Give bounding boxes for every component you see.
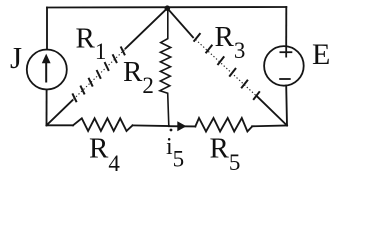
wire middle node to R5 xyxy=(169,125,195,127)
wire top rail xyxy=(47,6,286,9)
resistor R1 zigzag body xyxy=(73,47,125,101)
resistor R3 lower lead xyxy=(258,97,288,126)
plus sign xyxy=(280,47,291,57)
minus sign xyxy=(280,78,290,80)
current source arrow xyxy=(42,54,51,82)
resistor R5 xyxy=(195,118,252,132)
current source J xyxy=(27,50,67,90)
resistor R4 xyxy=(73,118,133,131)
svg-text:R1: R1 xyxy=(76,22,107,64)
svg-text:R3: R3 xyxy=(215,21,246,63)
current i5 arrowhead xyxy=(177,121,186,131)
wire R4 to middle node xyxy=(133,124,169,127)
svg-text:R5: R5 xyxy=(210,132,241,173)
resistor R3 zigzag body xyxy=(194,34,259,99)
node apex junction dot xyxy=(165,5,171,11)
svg-text:i5: i5 xyxy=(166,134,184,172)
wire right vertical upper xyxy=(285,7,287,46)
svg-text:R2: R2 xyxy=(123,56,154,98)
voltage source E xyxy=(264,46,304,86)
wire left vertical lower xyxy=(46,90,48,126)
resistor R1 lower lead xyxy=(47,100,73,125)
node middle junction dot xyxy=(170,129,173,132)
resistor R2 xyxy=(160,8,171,126)
svg-text:E: E xyxy=(312,38,330,71)
svg-text:R4: R4 xyxy=(89,132,120,173)
svg-text:J: J xyxy=(10,40,22,75)
wire left vertical upper xyxy=(46,8,48,50)
wire bottom-left segment xyxy=(47,124,74,126)
wire R5 to bottom-right node xyxy=(252,125,287,128)
resistor R3 upper lead xyxy=(167,8,193,37)
resistor R1 upper lead xyxy=(126,8,168,48)
wire right vertical lower xyxy=(285,86,288,126)
